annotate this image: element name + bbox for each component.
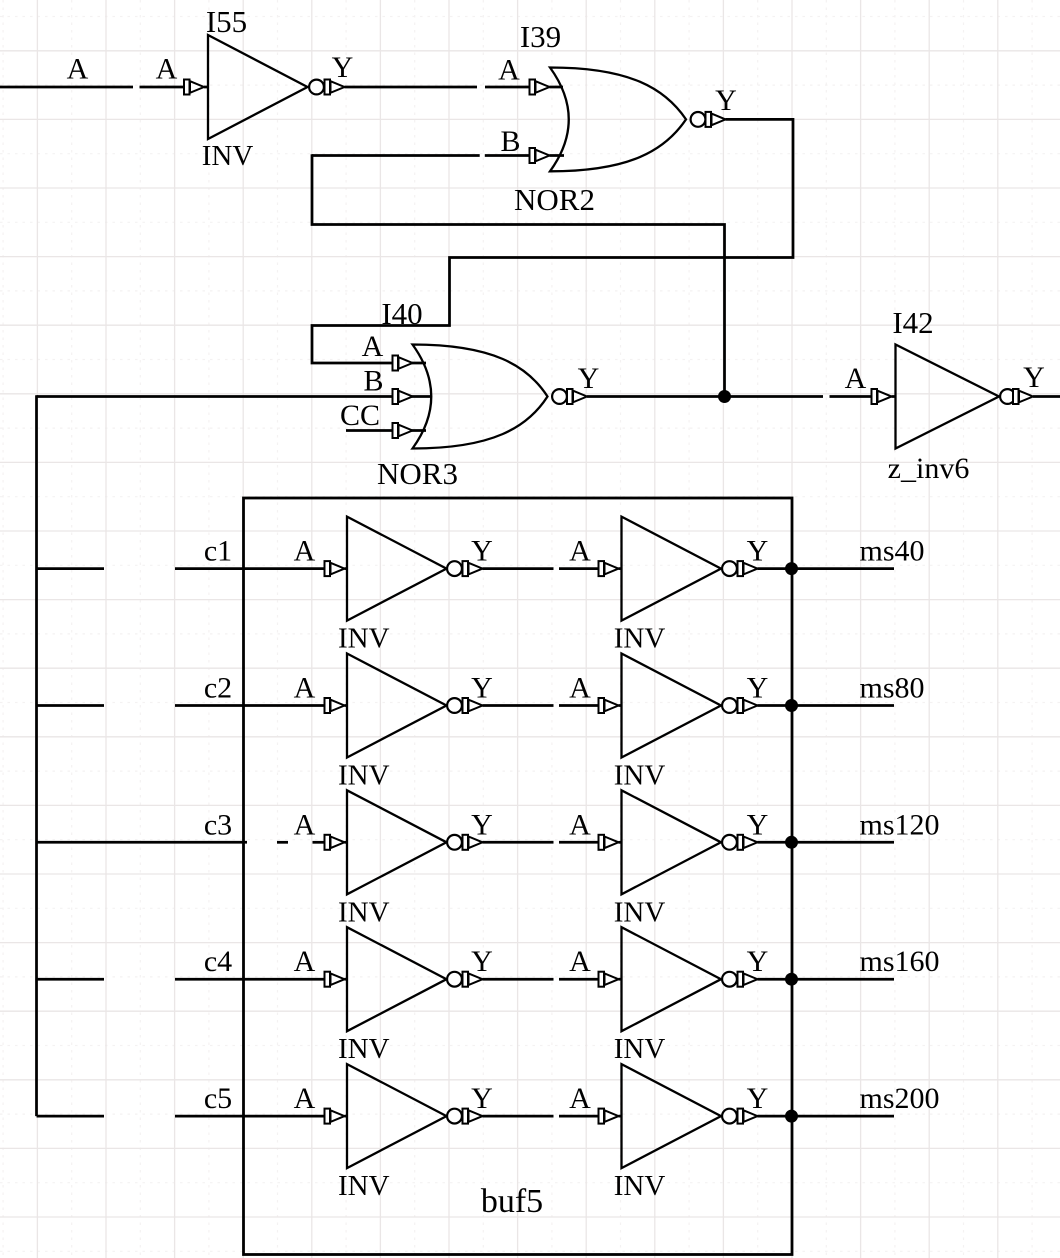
junction dot at node I40.Y / I39.B feedback bbox=[718, 390, 731, 403]
wire stub row 4 bbox=[345, 978, 349, 981]
inverter first INV row 3 triangle bbox=[347, 790, 447, 894]
output pin arrow of first INV row 5 bbox=[463, 1109, 483, 1124]
wire I42 output to right edge bbox=[1033, 395, 1060, 398]
input pin arrow of first INV row 2 bbox=[325, 698, 345, 713]
input pin arrow of first INV row 5 bbox=[325, 1109, 345, 1124]
svg-text:Y: Y bbox=[471, 672, 493, 705]
junction dot node ms160 on box edge bbox=[785, 973, 798, 986]
wire stub net CC bbox=[346, 429, 426, 432]
output pin arrow of second INV row 1 bbox=[738, 561, 758, 576]
svg-text:B: B bbox=[363, 365, 383, 398]
svg-text:c1: c1 bbox=[204, 535, 232, 568]
svg-text:Y: Y bbox=[715, 84, 737, 117]
junction dot node ms80 on box edge bbox=[785, 699, 798, 712]
inverter first INV row 1 triangle bbox=[347, 517, 447, 621]
wire stub 2 row 3 bbox=[619, 841, 623, 844]
wire stub into NOR2 A bbox=[550, 86, 564, 89]
output pin arrow of I40 (pin Y) bbox=[567, 389, 587, 404]
svg-text:I40: I40 bbox=[381, 296, 422, 331]
wire vertical trunk net c bbox=[35, 395, 38, 1116]
svg-text:INV: INV bbox=[338, 1170, 390, 1202]
svg-text:A: A bbox=[156, 53, 178, 86]
output pin arrow of first INV row 4 bbox=[463, 972, 483, 987]
svg-text:INV: INV bbox=[338, 760, 390, 792]
svg-text:Y: Y bbox=[747, 1082, 769, 1115]
inversion bubble second INV row 4 bbox=[722, 972, 737, 987]
wire c5 segment 1 bbox=[37, 1115, 105, 1118]
inversion bubble of I55 bbox=[309, 80, 324, 95]
input pin arrow of first INV row 3 bbox=[325, 835, 345, 850]
wire ms200 output bbox=[758, 1115, 895, 1118]
svg-text:Y: Y bbox=[1023, 361, 1045, 394]
svg-text:Y: Y bbox=[471, 808, 493, 841]
inversion bubble second INV row 2 bbox=[722, 698, 737, 713]
wire stub row 2 bbox=[345, 704, 349, 707]
junction dot node ms200 on box edge bbox=[785, 1110, 798, 1123]
wire segment to NOR2 input B bbox=[485, 154, 531, 157]
output pin arrow of first INV row 2 bbox=[463, 698, 483, 713]
svg-text:A: A bbox=[569, 1082, 591, 1115]
inversion bubble of I42 bbox=[1000, 389, 1015, 404]
svg-text:B: B bbox=[500, 125, 520, 158]
inversion bubble first INV row 5 bbox=[447, 1109, 462, 1124]
wire ms40 output bbox=[758, 567, 895, 570]
wire NOR2 B input segment bbox=[312, 154, 480, 157]
inversion bubble of I39 bbox=[691, 112, 706, 127]
wire stub row 3 bbox=[345, 841, 349, 844]
wire stub into I55 bbox=[204, 86, 209, 89]
svg-text:INV: INV bbox=[614, 760, 666, 792]
block buf5 boundary box bbox=[244, 498, 793, 1255]
output pin arrow of I39 (pin Y) bbox=[706, 112, 726, 127]
inverter I55 triangle bbox=[208, 35, 308, 139]
wire row 3 mid segment 1 bbox=[483, 841, 554, 844]
wire row 4 mid segment 1 bbox=[483, 978, 554, 981]
inverter first INV row 2 triangle bbox=[347, 654, 447, 758]
svg-text:c3: c3 bbox=[204, 808, 232, 841]
inversion bubble first INV row 1 bbox=[447, 561, 462, 576]
wire row 5 mid segment 1 bbox=[483, 1115, 554, 1118]
wire c4 segment 2 bbox=[175, 978, 326, 981]
inversion bubble first INV row 2 bbox=[447, 698, 462, 713]
input pin arrow B of NOR2 I39 bbox=[530, 148, 550, 163]
wire c3 segment 1 bbox=[37, 841, 248, 844]
svg-text:A: A bbox=[569, 672, 591, 705]
wire ms120 output bbox=[758, 841, 895, 844]
input pin arrow of first INV row 4 bbox=[325, 972, 345, 987]
wire c4 segment 1 bbox=[37, 978, 105, 981]
input pin arrow of I42 (pin A) bbox=[872, 389, 892, 404]
output pin arrow of second INV row 2 bbox=[738, 698, 758, 713]
svg-text:c5: c5 bbox=[204, 1082, 232, 1115]
svg-text:NOR3: NOR3 bbox=[377, 456, 458, 491]
NOR3 gate I40 body bbox=[413, 345, 548, 449]
inversion bubble first INV row 3 bbox=[447, 835, 462, 850]
inverter second INV row 5 triangle bbox=[622, 1064, 722, 1168]
wire stub 2 row 2 bbox=[619, 704, 623, 707]
wire segment to NOR2 input A bbox=[485, 86, 531, 89]
wire net A segment to I55 input pin bbox=[140, 86, 187, 89]
svg-text:A: A bbox=[294, 535, 316, 568]
wire I40 output segment bbox=[587, 395, 823, 398]
wire net B into NOR3 input B bbox=[37, 395, 432, 398]
svg-text:INV: INV bbox=[338, 623, 390, 655]
svg-text:Y: Y bbox=[747, 808, 769, 841]
svg-text:A: A bbox=[294, 672, 316, 705]
output pin arrow of second INV row 3 bbox=[738, 835, 758, 850]
wire row 2 mid segment 2 bbox=[559, 704, 600, 707]
svg-text:Y: Y bbox=[747, 672, 769, 705]
wire c3 segment 2 bbox=[277, 841, 288, 844]
output pin arrow of first INV row 1 bbox=[463, 561, 483, 576]
svg-text:A: A bbox=[845, 362, 867, 395]
inversion bubble of I40 bbox=[552, 389, 567, 404]
svg-text:Y: Y bbox=[471, 535, 493, 568]
svg-text:INV: INV bbox=[614, 1170, 666, 1202]
output pin arrow of I42 (pin Y) bbox=[1013, 389, 1033, 404]
svg-text:buf5: buf5 bbox=[481, 1183, 543, 1220]
svg-text:ms160: ms160 bbox=[860, 945, 940, 978]
wire stub row 5 bbox=[345, 1115, 349, 1118]
wire stub 2 row 5 bbox=[619, 1115, 623, 1118]
wire row 1 mid segment 1 bbox=[483, 567, 554, 570]
junction dot node ms120 on box edge bbox=[785, 836, 798, 849]
wire row 5 mid segment 2 bbox=[559, 1115, 600, 1118]
output pin arrow of second INV row 5 bbox=[738, 1109, 758, 1124]
svg-text:c4: c4 bbox=[204, 945, 232, 978]
inverter first INV row 4 triangle bbox=[347, 927, 447, 1031]
svg-text:A: A bbox=[294, 945, 316, 978]
svg-text:A: A bbox=[294, 1082, 316, 1115]
svg-text:Y: Y bbox=[471, 945, 493, 978]
wire I39.Y feedback to I40.A bbox=[312, 119, 793, 363]
svg-text:NOR2: NOR2 bbox=[514, 182, 595, 217]
wire ms80 output bbox=[758, 704, 895, 707]
wire stub into I42 bbox=[892, 395, 897, 398]
wire stub 2 row 1 bbox=[619, 567, 623, 570]
wire c3 segment 3 bbox=[313, 841, 327, 844]
svg-text:ms40: ms40 bbox=[860, 535, 925, 568]
svg-text:A: A bbox=[569, 808, 591, 841]
svg-text:I42: I42 bbox=[892, 305, 933, 340]
input pin arrow of second INV row 4 bbox=[599, 972, 619, 987]
inversion bubble second INV row 1 bbox=[722, 561, 737, 576]
svg-text:A: A bbox=[294, 808, 316, 841]
input pin arrow A of NOR2 I39 bbox=[530, 80, 550, 95]
input pin arrow CC of NOR3 I40 bbox=[393, 423, 413, 438]
svg-text:INV: INV bbox=[338, 1033, 390, 1065]
wire row 2 mid segment 1 bbox=[483, 704, 554, 707]
input pin arrow of second INV row 1 bbox=[599, 561, 619, 576]
output pin arrow of I55 (pin Y) bbox=[325, 80, 345, 95]
svg-text:ms200: ms200 bbox=[860, 1082, 940, 1115]
inverter second INV row 2 triangle bbox=[622, 654, 722, 758]
inversion bubble second INV row 3 bbox=[722, 835, 737, 850]
svg-text:I39: I39 bbox=[520, 19, 561, 54]
wire net A segment from left edge bbox=[0, 86, 133, 89]
svg-text:z_inv6: z_inv6 bbox=[888, 452, 970, 485]
svg-text:Y: Y bbox=[471, 1082, 493, 1115]
wire c2 segment 2 bbox=[175, 704, 326, 707]
inverter second INV row 1 triangle bbox=[622, 517, 722, 621]
input pin arrow of second INV row 2 bbox=[599, 698, 619, 713]
svg-text:c2: c2 bbox=[204, 672, 232, 705]
wire row 1 mid segment 2 bbox=[559, 567, 600, 570]
svg-text:I55: I55 bbox=[206, 4, 247, 39]
inverter first INV row 5 triangle bbox=[347, 1064, 447, 1168]
svg-text:ms80: ms80 bbox=[860, 672, 925, 705]
inversion bubble first INV row 4 bbox=[447, 972, 462, 987]
input pin arrow of second INV row 3 bbox=[599, 835, 619, 850]
svg-text:INV: INV bbox=[614, 1033, 666, 1065]
svg-text:CC: CC bbox=[340, 399, 380, 432]
svg-text:INV: INV bbox=[614, 623, 666, 655]
wire row 4 mid segment 2 bbox=[559, 978, 600, 981]
svg-text:A: A bbox=[569, 535, 591, 568]
input pin arrow of first INV row 1 bbox=[325, 561, 345, 576]
wire stub 2 row 4 bbox=[619, 978, 623, 981]
wire c2 segment 1 bbox=[37, 704, 105, 707]
wire ms160 output bbox=[758, 978, 895, 981]
wire stub into NOR2 B bbox=[550, 154, 565, 157]
input pin arrow of I55 (pin A) bbox=[184, 80, 204, 95]
svg-text:INV: INV bbox=[614, 896, 666, 928]
inverter second INV row 3 triangle bbox=[622, 790, 722, 894]
inverter I42 triangle bbox=[896, 345, 1000, 449]
NOR2 gate I39 body bbox=[550, 68, 686, 172]
svg-text:INV: INV bbox=[338, 896, 390, 928]
svg-text:Y: Y bbox=[747, 945, 769, 978]
inversion bubble second INV row 5 bbox=[722, 1109, 737, 1124]
wire c1 segment 2 bbox=[175, 567, 326, 570]
output pin arrow of first INV row 3 bbox=[463, 835, 483, 850]
svg-text:Y: Y bbox=[332, 51, 354, 84]
wire I55 output segment bbox=[345, 86, 478, 89]
svg-text:Y: Y bbox=[578, 362, 600, 395]
svg-text:Y: Y bbox=[747, 535, 769, 568]
svg-text:A: A bbox=[569, 945, 591, 978]
wire c1 segment 1 bbox=[37, 567, 105, 570]
input pin arrow B of NOR3 I40 bbox=[393, 389, 413, 404]
input pin arrow A of NOR3 I40 bbox=[393, 356, 413, 371]
svg-text:ms120: ms120 bbox=[860, 808, 940, 841]
svg-text:A: A bbox=[362, 330, 384, 363]
wire feedback from node Y of I40 to I39.B bbox=[312, 154, 725, 396]
output pin arrow of second INV row 4 bbox=[738, 972, 758, 987]
svg-text:INV: INV bbox=[202, 140, 254, 172]
junction dot node ms40 on box edge bbox=[785, 562, 798, 575]
input pin arrow of second INV row 5 bbox=[599, 1109, 619, 1124]
wire stub row 1 bbox=[345, 567, 349, 570]
wire row 3 mid segment 2 bbox=[559, 841, 600, 844]
inverter second INV row 4 triangle bbox=[622, 927, 722, 1031]
svg-text:A: A bbox=[67, 53, 89, 86]
wire c5 segment 2 bbox=[175, 1115, 326, 1118]
svg-text:A: A bbox=[498, 54, 520, 87]
wire segment to I42 input bbox=[830, 395, 873, 398]
